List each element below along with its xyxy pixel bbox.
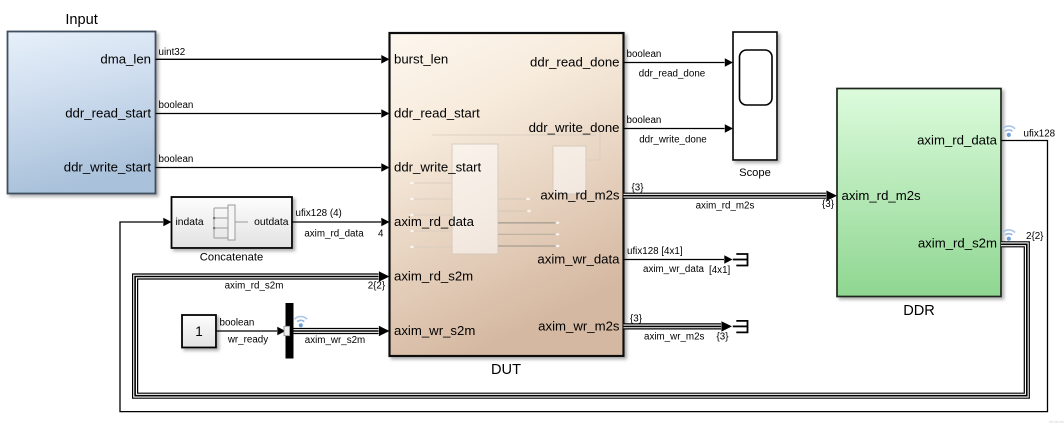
svg-text:axim_wr_m2s: axim_wr_m2s bbox=[538, 318, 620, 333]
block Concatenate bbox=[172, 197, 293, 264]
svg-text:boolean: boolean bbox=[159, 154, 194, 165]
svg-text:axim_wr_s2m: axim_wr_s2m bbox=[305, 335, 365, 346]
svg-text:boolean: boolean bbox=[220, 318, 255, 329]
svg-text:axim_wr_data: axim_wr_data bbox=[643, 264, 705, 275]
svg-text:ddr_write_done: ddr_write_done bbox=[529, 120, 620, 135]
svg-text:2{2}: 2{2} bbox=[368, 281, 386, 292]
wireless icon DDR out1 bbox=[1003, 126, 1016, 137]
block Constant 1 bbox=[182, 315, 216, 348]
wire axim_wr_data to terminator bbox=[624, 255, 733, 264]
svg-text:axim_rd_s2m: axim_rd_s2m bbox=[918, 236, 997, 251]
svg-text:axim_rd_s2m: axim_rd_s2m bbox=[225, 281, 284, 292]
svg-text:axim_rd_m2s: axim_rd_m2s bbox=[696, 201, 755, 212]
svg-text:{3}: {3} bbox=[630, 314, 643, 325]
svg-text:ufix128: ufix128 bbox=[1024, 129, 1056, 140]
svg-text:[4x1]: [4x1] bbox=[709, 265, 731, 276]
terminator axim_wr_data bbox=[736, 254, 747, 266]
wire ddr_write_done to scope bbox=[624, 124, 734, 133]
block Input bbox=[8, 12, 156, 194]
svg-text:{3}: {3} bbox=[822, 199, 835, 210]
svg-text:ufix128 (4): ufix128 (4) bbox=[296, 208, 342, 219]
svg-text:ddr_read_start: ddr_read_start bbox=[65, 106, 151, 121]
svg-text:ddr_write_done: ddr_write_done bbox=[639, 135, 707, 146]
svg-text:boolean: boolean bbox=[159, 100, 194, 111]
svg-text:burst_len: burst_len bbox=[394, 52, 448, 67]
svg-text:wr_ready: wr_ready bbox=[227, 335, 268, 346]
svg-text:outdata: outdata bbox=[254, 217, 289, 228]
svg-text:Input: Input bbox=[65, 12, 97, 28]
block Scope bbox=[733, 32, 777, 179]
block DUT bbox=[390, 33, 624, 356]
svg-text:2{2}: 2{2} bbox=[1026, 231, 1044, 242]
svg-text:indata: indata bbox=[176, 217, 204, 228]
svg-text:DDR: DDR bbox=[903, 303, 935, 319]
svg-text:ddr_read_done: ddr_read_done bbox=[530, 55, 619, 70]
svg-text:axim_rd_data: axim_rd_data bbox=[917, 133, 998, 148]
bus axim_rd_m2s DUT to DDR bbox=[624, 191, 838, 201]
wire loop axim_rd_data DDR to Concatenate bbox=[120, 141, 1048, 412]
svg-text:axim_wr_s2m: axim_wr_s2m bbox=[394, 323, 475, 338]
svg-text:ddr_write_start: ddr_write_start bbox=[394, 160, 482, 175]
bus axim_wr_s2m bar to DUT bbox=[294, 326, 390, 336]
svg-text:axim_rd_m2s: axim_rd_m2s bbox=[842, 188, 922, 203]
svg-text:ufix128 [4x1]: ufix128 [4x1] bbox=[627, 246, 683, 257]
terminator axim_wr_m2s bbox=[736, 321, 747, 333]
svg-text:ddr_write_start: ddr_write_start bbox=[64, 160, 152, 175]
svg-text:axim_rd_data: axim_rd_data bbox=[304, 229, 364, 240]
status marks bottom right bbox=[1049, 421, 1064, 423]
wire ddr_write_start bbox=[156, 163, 390, 172]
bus creator bar bbox=[284, 303, 294, 359]
svg-text:1: 1 bbox=[195, 324, 203, 339]
svg-text:axim_rd_m2s: axim_rd_m2s bbox=[540, 188, 620, 203]
svg-text:{3}: {3} bbox=[717, 332, 730, 343]
svg-text:{3}: {3} bbox=[632, 183, 645, 194]
svg-text:uint32: uint32 bbox=[159, 47, 186, 58]
DUT preview watermark bbox=[410, 128, 600, 254]
svg-text:ddr_read_start: ddr_read_start bbox=[394, 106, 480, 121]
wireless icon DDR out2 bbox=[1003, 230, 1016, 241]
wire dma_len to burst_len bbox=[156, 55, 390, 64]
bus axim_wr_m2s to terminator bbox=[624, 321, 733, 331]
wire concat outdata to DUT axim_rd_data bbox=[292, 218, 390, 227]
svg-text:dma_len: dma_len bbox=[100, 52, 151, 67]
svg-text:DUT: DUT bbox=[491, 362, 521, 378]
svg-text:axim_rd_s2m: axim_rd_s2m bbox=[394, 269, 473, 284]
wire ddr_read_start bbox=[156, 109, 390, 118]
svg-text:axim_rd_data: axim_rd_data bbox=[394, 214, 475, 229]
svg-text:boolean: boolean bbox=[627, 115, 662, 126]
svg-text:Concatenate: Concatenate bbox=[200, 252, 263, 264]
svg-text:4: 4 bbox=[378, 229, 384, 240]
svg-text:ddr_read_done: ddr_read_done bbox=[639, 69, 706, 80]
svg-text:axim_wr_m2s: axim_wr_m2s bbox=[644, 332, 705, 343]
svg-text:Scope: Scope bbox=[739, 167, 771, 179]
wire ddr_read_done to scope bbox=[624, 58, 734, 67]
bus loop axim_rd_s2m DDR to DUT bbox=[135, 244, 1027, 395]
wireless icon bus creator bbox=[295, 317, 308, 328]
wire constant to bus creator bbox=[216, 327, 286, 336]
block DDR bbox=[837, 89, 1001, 320]
DUT port labels bbox=[394, 52, 620, 379]
svg-text:axim_wr_data: axim_wr_data bbox=[537, 252, 620, 267]
svg-text:boolean: boolean bbox=[627, 49, 662, 60]
concatenate icon bbox=[213, 205, 248, 240]
